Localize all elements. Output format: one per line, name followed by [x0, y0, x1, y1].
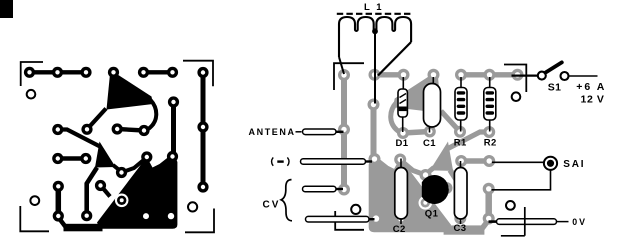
- svg-text:L 1: L 1: [364, 2, 384, 13]
- svg-text:Q1: Q1: [425, 208, 439, 219]
- svg-text:+6 A: +6 A: [576, 81, 606, 93]
- svg-text:ANTENA: ANTENA: [249, 127, 296, 137]
- svg-text:SAI: SAI: [563, 159, 585, 170]
- svg-text:R1: R1: [454, 138, 467, 149]
- svg-text:C3: C3: [454, 223, 467, 234]
- svg-text:R2: R2: [484, 138, 497, 149]
- svg-text:12 V: 12 V: [581, 94, 605, 106]
- svg-text:D1: D1: [396, 138, 409, 149]
- svg-text:0V: 0V: [572, 217, 587, 227]
- svg-text:CV: CV: [263, 200, 281, 211]
- svg-text:C1: C1: [423, 138, 436, 149]
- svg-text:C2: C2: [393, 224, 406, 235]
- svg-text:S1: S1: [548, 82, 562, 94]
